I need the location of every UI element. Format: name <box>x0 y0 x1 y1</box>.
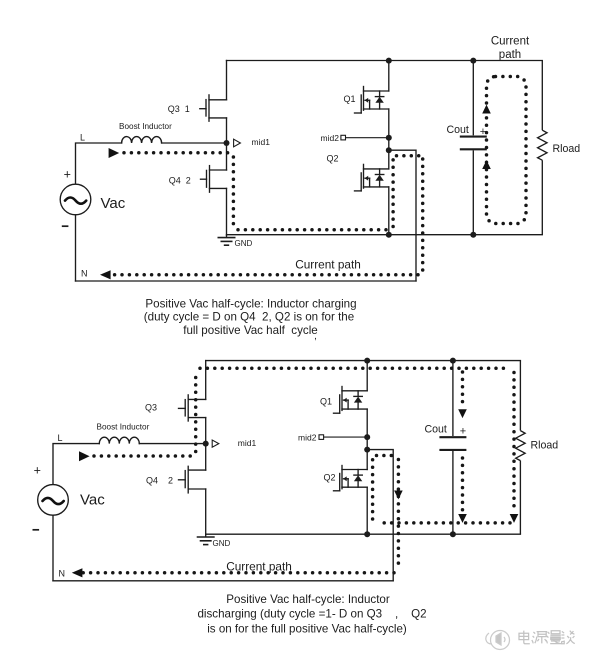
wire: top rail (bottom) <box>206 360 521 362</box>
diode D-Q2 body triangle <box>375 175 383 181</box>
char 源 <box>532 632 547 644</box>
wire: Q1 source to Q2 drain column, mid2 node (bottom) <box>366 409 368 469</box>
dotted path segment: down beside mid1 column (top) <box>232 157 236 226</box>
svg-text:Q3 1: Q3 1 <box>168 104 190 114</box>
wire: Vac top column and L wire to inductor <box>76 143 122 184</box>
svg-text:Cout: Cout <box>447 124 469 136</box>
wire: Q4 source column to GND (bottom) <box>205 489 207 534</box>
dotted path segment: along N wire (bottom) <box>76 571 394 575</box>
labels (bottom circuit) <box>34 396 559 578</box>
dotted path segment: along top rail (bottom) <box>200 367 510 371</box>
svg-text:Boost Inductor: Boost Inductor <box>119 122 172 131</box>
dotted path segment: down from Cout minus (bottom) <box>461 458 465 510</box>
wire: N return wire (bottom) <box>53 580 393 582</box>
svg-text:Q2: Q2 <box>324 473 336 483</box>
capacitor Cout (bottom circuit) <box>439 361 466 535</box>
dotted current path: after inductor (top) <box>107 153 423 275</box>
dotted path segment: down to N return (bottom) <box>397 460 401 570</box>
svg-text:Q1: Q1 <box>320 396 332 406</box>
wire: Q3 source to Q4 drain column, node mid1 (bottom) <box>205 418 207 471</box>
svg-text:GND: GND <box>213 539 231 548</box>
svg-text:+: + <box>34 463 41 477</box>
transistor Q4 (ref Q4 2, bottom) <box>187 466 189 493</box>
tilde inside Vac <box>65 198 86 204</box>
diode D-Q1 body triangle (bottom) <box>354 397 362 403</box>
wire: Q2 source column (bottom) <box>366 487 368 534</box>
dotted path segment: right at mid2 level (bottom) <box>377 454 396 458</box>
wire: N return wire <box>76 280 417 282</box>
svg-text:+: + <box>64 168 71 182</box>
transistor Q3 (bottom) <box>187 395 189 421</box>
junction dots (bottom circuit) <box>203 358 456 538</box>
svg-text:Vac: Vac <box>80 491 105 508</box>
transistor Q3 (ref Q3 1) <box>208 95 210 121</box>
svg-text:Boost Inductor: Boost Inductor <box>97 422 150 431</box>
svg-text:Q3: Q3 <box>145 403 157 413</box>
svg-text:Cout: Cout <box>425 424 447 436</box>
node: return line tap <box>386 147 392 153</box>
current arrow up 1 in output loop (top) <box>482 105 491 114</box>
node: Q2 source at ground rail (bottom) <box>364 531 370 537</box>
node: return line tap (bottom) <box>364 447 370 453</box>
dotted path segment: along L wire after inductor (top) <box>124 151 229 155</box>
wire: Q3 source to Q4 drain column (node mid1) <box>226 118 228 170</box>
node: Q1 drain at top rail (bottom) <box>364 358 370 364</box>
node mid2 terminal square and wire (bottom) <box>319 435 367 440</box>
capacitor Cout (top circuit) <box>460 61 487 235</box>
svg-text:Vac: Vac <box>101 195 126 212</box>
current arrow down below Cout (bottom) <box>458 514 467 523</box>
node: Cout top (bottom) <box>450 358 456 364</box>
wire: Q4 source column to GND <box>226 188 228 235</box>
dotted path segment: down to N return (top) <box>421 159 425 271</box>
wire: ground rail <box>227 234 543 236</box>
svg-text:GND: GND <box>235 239 253 248</box>
svg-text:L: L <box>58 433 63 443</box>
wire: ground rail (bottom) <box>206 533 521 535</box>
wire: top rail <box>227 60 543 62</box>
diode D-Q1 body triangle <box>375 97 383 103</box>
current arrow on N wire (top) <box>100 270 111 279</box>
inductor L1 Boost Inductor <box>122 137 162 143</box>
svg-text:mid1: mid1 <box>238 438 257 448</box>
svg-text:Q4 2: Q4 2 <box>146 475 173 485</box>
dotted current path: inductor to top rail (bottom) <box>76 368 514 572</box>
node mid1 (bottom) <box>203 441 209 447</box>
node: Cout top <box>470 58 476 64</box>
current arrow down above Cout (bottom) <box>458 409 467 418</box>
wire: Q2 source column <box>388 187 390 235</box>
current arrow after inductor (bottom) <box>79 451 90 461</box>
wire: return line from N up to mid2 junction <box>389 150 416 281</box>
current arrow down on Rload path (bottom) <box>510 514 519 523</box>
dotted current path: output loop (top) <box>487 77 527 224</box>
wire: inductor to node mid1 (bottom) <box>139 443 205 445</box>
minus label of Vac (bottom) <box>33 529 40 531</box>
svg-text:mid1: mid1 <box>252 137 271 147</box>
svg-text:Q4 2: Q4 2 <box>169 175 191 185</box>
wire: Vac bottom column (bottom) <box>52 515 54 581</box>
dotted path segment: right at mid2 level (top) <box>397 154 420 158</box>
dotted path segment: down beside Rload (bottom) <box>512 373 516 511</box>
dotted path segment: up beside Q3 (bottom) <box>194 373 198 452</box>
wire: Q3 drain column <box>226 61 228 100</box>
wire: Vac bottom column <box>75 215 77 281</box>
current arrow on N wire (bottom) <box>72 568 83 577</box>
caption: bottom circuit <box>197 593 426 635</box>
svg-text:Current path: Current path <box>226 560 292 574</box>
wire: inductor to node mid1 <box>162 142 227 144</box>
svg-text:Positive Vac half-cycle: Induc: Positive Vac half-cycle: Inductor <box>226 593 390 606</box>
node: Q2 source at ground rail <box>386 232 392 238</box>
svg-text:,: , <box>314 331 317 342</box>
node mid2 terminal square and wire <box>341 135 389 140</box>
svg-text:Rload: Rload <box>531 440 559 452</box>
inductor L2 Boost Inductor (bottom) <box>99 437 139 443</box>
svg-text:N: N <box>59 569 66 579</box>
source Vac (AC source, bottom) <box>38 485 69 516</box>
svg-text:path: path <box>499 49 521 61</box>
char 漫 <box>546 631 561 644</box>
svg-text:L: L <box>80 133 85 143</box>
caption: top circuit <box>144 298 357 343</box>
wire: Q3 drain column (bottom) <box>205 361 207 400</box>
svg-text:Q1: Q1 <box>344 94 356 104</box>
char 电 <box>519 631 530 644</box>
svg-text:mid2: mid2 <box>298 433 317 443</box>
dotted path segment: along N wire (top) <box>107 273 418 277</box>
node: Cout bottom (bottom) <box>450 531 456 537</box>
labels (top circuit) <box>64 94 581 279</box>
dotted path segment: up beside Q2 (top) <box>391 160 395 227</box>
transistor Q4 (ref Q4 2) <box>209 166 211 193</box>
transistor Q1 with body diode (bottom) <box>366 361 368 391</box>
junction dots (top circuit) <box>224 58 477 238</box>
dotted path segment: along L wire after inductor (bottom) <box>94 454 191 458</box>
node mid2 junction (bottom) <box>364 434 370 440</box>
ground GND (top circuit) <box>218 235 236 245</box>
node mid1 <box>224 140 230 146</box>
char 谈 <box>561 631 574 644</box>
dotted path segment: along bottom above ground rail (bottom) <box>378 521 510 525</box>
current arrow after inductor (top) <box>109 148 120 158</box>
tilde inside Vac (bottom) <box>43 498 64 504</box>
svg-text:+: + <box>480 126 486 138</box>
node mid1 open arrow <box>234 139 241 147</box>
node mid1 open arrow (bottom) <box>212 440 219 447</box>
node: Q1 drain at top rail <box>386 58 392 64</box>
svg-text:is on for the full positive Va: is on for the full positive Vac half-cyc… <box>207 622 407 635</box>
source Vac (AC source) <box>60 184 91 215</box>
current arrow up 2 in output loop (top) <box>482 160 491 169</box>
diode D-Q2 body triangle (bottom) <box>354 475 362 481</box>
current arrow down right of Q2 (bottom) <box>394 491 403 500</box>
transistor Q2 with body diode <box>364 168 389 170</box>
svg-text:(duty cycle = D on Q4 2, Q2 i: (duty cycle = D on Q4 2, Q2 is on for th… <box>144 311 354 324</box>
svg-text:mid2: mid2 <box>321 133 340 143</box>
wire: Q1 source to Q2 drain column (mid2 node) <box>388 109 390 169</box>
wire: return line from N up to mid2 junction (bottom) <box>367 450 393 581</box>
ground GND (bottom circuit) <box>197 534 215 544</box>
minus label of Vac (top) <box>62 225 69 227</box>
svg-text:Current path: Current path <box>295 257 361 271</box>
svg-text:Current: Current <box>491 36 530 48</box>
node: Cout bottom <box>470 232 476 238</box>
transistor Q1 with body diode <box>388 61 390 92</box>
BOTTOM CIRCUIT <box>38 361 521 581</box>
svg-text:Rload: Rload <box>553 143 581 155</box>
svg-text:Positive Vac half-cycle: Induc: Positive Vac half-cycle: Inductor chargi… <box>145 298 356 311</box>
dotted path segment: up beside Q2 (bottom) <box>371 460 375 520</box>
resistor Rload (top circuit) <box>538 61 547 235</box>
svg-text:+: + <box>460 426 466 438</box>
svg-text:full positive Vac half cycle: full positive Vac half cycle <box>183 324 317 337</box>
watermark logo 电源漫谈 <box>486 631 510 650</box>
resistor Rload (bottom circuit) <box>516 361 525 535</box>
svg-text:N: N <box>81 269 88 279</box>
svg-text:discharging (duty cycle =1- D: discharging (duty cycle =1- D on Q3 , Q2 <box>197 608 426 621</box>
node mid2 junction <box>386 135 392 141</box>
wire: Vac top column and L wire to inductor (bottom) <box>53 444 99 485</box>
svg-text:Q2: Q2 <box>327 154 339 164</box>
dotted path segment: along ground rail (top) <box>238 228 388 232</box>
dotted path segment: down to Cout plus (bottom) <box>461 372 465 405</box>
transistor Q2 with body diode (bottom) <box>342 469 367 471</box>
